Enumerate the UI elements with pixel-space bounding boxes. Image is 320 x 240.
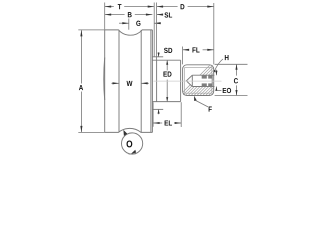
thread block bottom right (208, 83, 212, 86)
dimension T line (105, 6, 114, 8)
dimension ED line and arrows (166, 61, 168, 71)
wheel hub bulge arc on left face (103, 58, 106, 101)
EL right extension (180, 102, 182, 127)
side plate right edge (180, 60, 182, 101)
thread block bottom left (202, 83, 207, 86)
F leader line (196, 100, 209, 107)
bore cone base line (191, 75, 193, 86)
label A (79, 85, 83, 90)
label EO (223, 88, 231, 93)
label O (127, 140, 133, 147)
dimension G left arrow (119, 22, 129, 24)
shaft top edge (152, 56, 163, 58)
dimension SL arrow (157, 14, 163, 16)
detail circle bottom arrowhead (131, 150, 136, 154)
EO bottom arrow with leader (215, 87, 217, 91)
dimension T extension line (104, 3, 106, 30)
dimension G right arrow (154, 22, 161, 24)
dimension W right arrow (141, 82, 149, 84)
thread end line (211, 75, 213, 86)
detail circle arrowhead (123, 130, 127, 136)
EL left extension (152, 102, 154, 127)
shaft bottom edge (152, 108, 163, 110)
groove shoulder line left (118, 30, 120, 132)
thread block top left (202, 75, 207, 78)
hub right extension line (213, 3, 215, 64)
label G (136, 21, 140, 26)
H leader line (214, 59, 223, 71)
bore cone tip (186, 75, 192, 86)
dimension A extension bottom (78, 131, 104, 133)
wheel right edge outer (150, 30, 152, 132)
thread block top right (208, 75, 212, 78)
bore bottom line (192, 86, 214, 88)
hub outline (183, 65, 214, 96)
dimension B line (105, 14, 125, 16)
label F (209, 107, 212, 112)
label SD (164, 48, 172, 53)
side plate top edge (152, 59, 180, 61)
label FL (192, 47, 199, 52)
F leader arrowhead (194, 96, 197, 101)
dimension SD bottom arrow (158, 109, 160, 114)
EO top arrow (215, 70, 217, 75)
detail circle O (122, 133, 143, 154)
H leader arrowhead (214, 70, 216, 73)
label W (127, 81, 133, 86)
wheel left edge (104, 30, 106, 132)
bore white mask (186, 75, 214, 86)
label H (225, 55, 229, 60)
label C (234, 78, 238, 83)
hub axis centreline (154, 80, 222, 82)
wheel bottom edge with groove dip (105, 128, 153, 132)
dimension C line (236, 65, 238, 76)
plate left extension line (156, 3, 158, 61)
bore top line (192, 74, 214, 76)
extension line between wheel and plate (153, 3, 155, 57)
dimension A line (80, 30, 82, 83)
side plate left edge (156, 60, 158, 101)
dimension EL line (153, 122, 162, 124)
groove shoulder line right (140, 30, 142, 132)
FL left extension (182, 47, 184, 65)
detail circle tangent tick (129, 153, 136, 155)
C top extension (215, 63, 248, 65)
label EL (165, 120, 172, 125)
wheel right edge inner (151, 30, 153, 132)
dimension D line (157, 6, 178, 8)
label SL (164, 12, 172, 17)
dimension SD top arrow (158, 52, 160, 57)
wheel top edge with groove dip (105, 30, 153, 35)
C bottom extension (215, 95, 248, 97)
label ED (163, 72, 171, 77)
side plate bottom edge (152, 101, 180, 103)
dimension G extension line (128, 19, 130, 30)
label D (181, 4, 185, 9)
label B (128, 12, 132, 17)
dimension FL line (183, 49, 190, 51)
label T (118, 4, 122, 9)
hub chamfer inner outline (185, 68, 212, 94)
dimension A extension top (78, 29, 104, 31)
dimension W left arrow (111, 82, 119, 84)
